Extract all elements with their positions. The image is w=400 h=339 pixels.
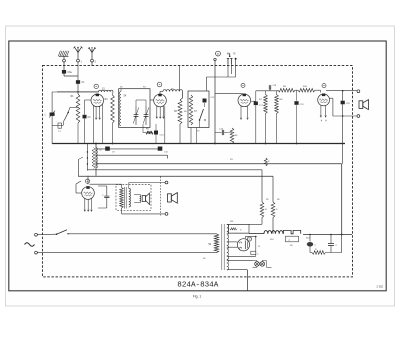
wire R down: [235, 59, 237, 77]
resistor R5: [143, 124, 153, 134]
capacitor C24: [251, 251, 259, 255]
wire to terminal: [326, 90, 357, 92]
pickup circle P: [216, 51, 221, 56]
tiny label group 1: [120, 87, 215, 133]
tube U4 pins: [320, 105, 327, 117]
wire left bundle: [95, 144, 97, 176]
wire rect out: [245, 237, 256, 257]
tube U5 grid wire: [76, 181, 82, 193]
switch SK2: [199, 109, 206, 128]
wire U3 topcap: [215, 93, 243, 95]
chassis dashed box: [43, 66, 353, 277]
wire coil left: [57, 91, 99, 93]
label M R: [227, 52, 236, 56]
tiny label group 3: [203, 221, 310, 260]
wire r14 right: [326, 235, 342, 253]
avc line 2: [87, 169, 262, 171]
filter choke 2: [270, 230, 301, 246]
wire ot bot: [122, 208, 166, 214]
sec tap 5: [227, 255, 256, 257]
wire to ant line: [64, 75, 78, 77]
tiny label group 2: [99, 150, 280, 202]
volume control network: [78, 144, 88, 177]
caption sheet number: [377, 285, 384, 289]
tube U4: [318, 94, 330, 106]
terminal A (earth): [63, 59, 66, 62]
svg-text:P: P: [217, 52, 219, 56]
capacitor C1: [76, 80, 85, 84]
svg-text:Fig. 1: Fig. 1: [193, 294, 202, 298]
capacitor C3: [83, 100, 92, 144]
resistor R10: [298, 86, 315, 92]
tube U2: [154, 94, 167, 107]
voice coil: [134, 195, 141, 203]
tube U5 number: [85, 179, 89, 183]
trimmer C7: [45, 92, 56, 144]
fork symbol: [227, 53, 233, 64]
tube U3 pins: [240, 106, 248, 120]
resistor R1: [71, 94, 80, 123]
coil S4: [120, 92, 128, 126]
wire U4 anode right: [330, 97, 333, 99]
wire U1 grid: [85, 99, 92, 101]
wire r9r10: [295, 89, 298, 91]
tube U2 pins: [156, 106, 164, 119]
speaker LS1: [142, 193, 149, 204]
b line right: [303, 234, 352, 236]
tube U4 number: [322, 84, 326, 88]
capacitor C26: [328, 235, 338, 253]
IF transformer T1 box: [119, 89, 150, 128]
capacitor C2: [52, 123, 63, 133]
wire U3 cathode: [255, 105, 257, 143]
wire psu down: [246, 270, 248, 291]
tube U3 number: [241, 83, 245, 87]
heater line 2: [96, 155, 168, 158]
pickup terminal: [214, 58, 216, 60]
resistor R4: [105, 95, 115, 123]
capacitor C23: [102, 186, 109, 208]
choke loops left: [96, 148, 98, 169]
resistor R9: [278, 86, 295, 92]
dashed link: [160, 177, 162, 216]
avc line: [96, 163, 342, 165]
svg-text:2 302: 2 302: [377, 285, 384, 289]
ground symbol: [58, 51, 69, 59]
wire earth down: [63, 62, 65, 76]
terminal antenna 1: [77, 59, 80, 62]
coil S1: [99, 89, 114, 93]
heater line 1: [96, 148, 162, 150]
speaker LS2: [359, 100, 368, 110]
ext speaker terminal 2: [165, 213, 168, 216]
output terminal bottom: [357, 115, 360, 118]
capacitor C22: [158, 147, 163, 151]
psu box coil: [230, 228, 237, 231]
wire osc drop: [191, 103, 205, 144]
component R13: [264, 158, 270, 166]
trimmer C11: [133, 106, 139, 125]
wire s6 top: [180, 66, 183, 100]
filter choke 1: [264, 231, 283, 234]
sec tap 2: [227, 232, 249, 234]
output transformer secondary: [129, 189, 131, 208]
output terminal top: [357, 90, 360, 93]
wire pickup down: [214, 61, 216, 94]
tube U1 pins: [93, 104, 102, 144]
output transformer primary: [120, 188, 124, 209]
tube U5 pins: [84, 198, 92, 211]
label a1: [81, 61, 83, 64]
antenna symbol 2: [88, 47, 96, 59]
lamp wires: [253, 261, 272, 268]
ext speaker terminal 1: [165, 181, 168, 184]
svg-text:C6a: C6a: [68, 72, 73, 74]
trimmer C12: [143, 106, 149, 125]
wire box1 top: [121, 89, 146, 106]
oscillator box: [188, 91, 209, 128]
wire S5 left: [160, 92, 163, 95]
wire U2 cathode: [164, 106, 166, 143]
wire fork loop: [206, 64, 235, 91]
wire top left horiz: [52, 91, 98, 93]
wire mid vertical: [214, 94, 216, 144]
resistor R8: [275, 91, 283, 114]
mains tilde: [25, 243, 35, 247]
mains wire top: [68, 233, 217, 235]
coil S5: [163, 90, 183, 92]
caption Fig 1: [193, 294, 202, 298]
capacitor C17: [254, 102, 264, 108]
electrolytic C25: [307, 235, 317, 253]
tube U1: [91, 94, 104, 107]
wire ant2 stub: [91, 62, 93, 66]
wire af to grid: [315, 90, 321, 92]
speaker assembly dashed box: [116, 185, 151, 211]
sec tap 6: [227, 260, 253, 262]
coil S7: [189, 95, 197, 125]
capacitor C15: [203, 99, 207, 103]
power transformer primary: [208, 234, 219, 253]
wire s6 bot: [179, 124, 181, 144]
caption 824A-834A: [177, 282, 218, 290]
outer border frame: [9, 41, 386, 291]
psu top box: [229, 224, 250, 233]
terminal antenna 2: [91, 59, 94, 62]
wire c23 t: [98, 186, 107, 208]
svg-text:824A-834A: 824A-834A: [177, 282, 218, 290]
terminal R: [235, 58, 237, 60]
power transformer core: [222, 224, 224, 270]
switch SK1: [64, 107, 79, 125]
lower line long: [78, 175, 273, 177]
wire ot top: [90, 184, 122, 187]
wire R8 down: [276, 114, 278, 144]
wire U5 up: [87, 176, 89, 184]
sec tap 4: [227, 246, 238, 248]
resistor R14: [310, 249, 326, 254]
tube U6: [237, 239, 249, 251]
mains terminal 2: [35, 251, 38, 254]
sec tap 7: [227, 269, 248, 271]
tube U6 number: [247, 237, 251, 241]
sec tap 1: [227, 223, 249, 225]
resistor R11: [249, 170, 267, 225]
resistor R6: [228, 128, 238, 144]
coil S8: [92, 148, 95, 169]
wire ant1 down: [77, 62, 79, 94]
b vertical right: [341, 164, 343, 235]
mains wire bottom: [37, 252, 216, 254]
wire speaker return: [333, 98, 357, 116]
wire af bus: [256, 91, 278, 101]
mains terminal 1: [35, 233, 38, 236]
wire ot top2: [129, 183, 165, 189]
wire U2 grid: [150, 99, 154, 101]
tube U3: [238, 94, 251, 107]
main earth bus: [52, 143, 345, 145]
sec tap 3: [227, 241, 238, 243]
tube U1 number: [94, 84, 98, 88]
capacitor C18: [269, 85, 277, 91]
resistor R12: [271, 176, 278, 234]
svg-text:R.: R.: [234, 52, 237, 56]
wire coil right drop: [112, 92, 115, 144]
resistor S6: [174, 100, 182, 124]
capacitor C14: [154, 124, 164, 144]
capacitor C19: [294, 90, 304, 143]
tube U2 number: [157, 82, 162, 87]
wire R1 to bus: [77, 123, 79, 144]
antenna symbol 1: [73, 46, 82, 59]
capacitor C21: [105, 147, 110, 151]
mains switch: [37, 230, 68, 235]
wire U4 cathode: [321, 120, 326, 121]
label a2: [95, 61, 97, 64]
choke line: [249, 233, 264, 235]
resistor R7: [259, 91, 267, 114]
output transformer core: [125, 187, 127, 209]
capacitor C20: [341, 91, 351, 164]
pilot lamp 2: [260, 262, 265, 267]
wire S5 drop: [182, 92, 184, 99]
speaker LS3: [168, 193, 178, 204]
capacitor C6a: [62, 70, 73, 74]
capacitor C16: [215, 129, 228, 136]
pilot lamp 1: [255, 262, 260, 267]
power transformer secondary: [227, 224, 229, 270]
wire R7 down: [265, 114, 267, 144]
tube U5: [82, 186, 95, 199]
wire C17: [251, 100, 256, 102]
